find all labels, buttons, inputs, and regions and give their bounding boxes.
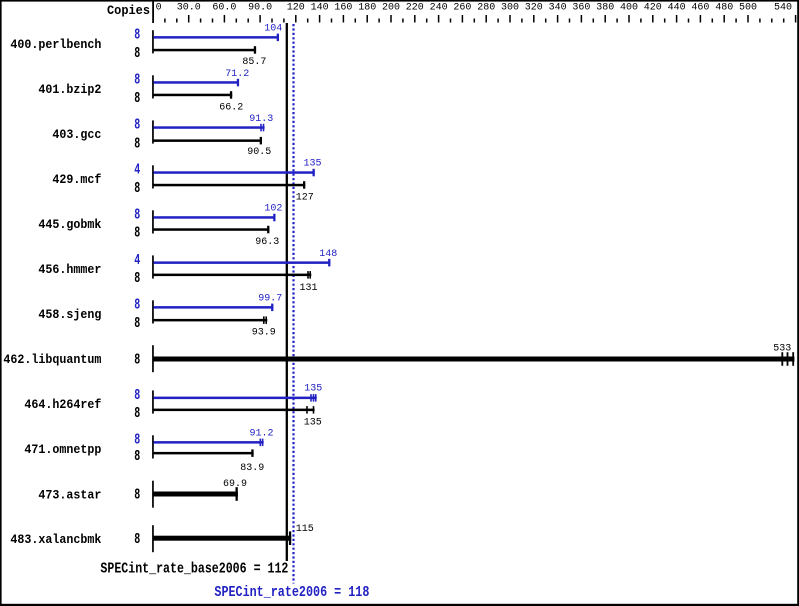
benchmark group 403.gcc (52, 114, 273, 158)
svg-text:483.xalancbmk: 483.xalancbmk (10, 532, 101, 547)
svg-text:160: 160 (334, 3, 352, 14)
svg-text:240: 240 (430, 3, 448, 14)
svg-text:30.0: 30.0 (177, 3, 201, 14)
svg-text:400: 400 (620, 3, 638, 14)
benchmark group 429.mcf (52, 159, 321, 204)
svg-text:458.sjeng: 458.sjeng (38, 307, 101, 322)
svg-text:360: 360 (572, 3, 590, 14)
svg-text:140: 140 (311, 3, 329, 14)
svg-text:91.3: 91.3 (249, 114, 273, 125)
benchmark group 445.gobmk (38, 203, 282, 248)
svg-text:SPECint_rate_base2006 = 112: SPECint_rate_base2006 = 112 (100, 561, 288, 578)
svg-text:8: 8 (134, 117, 140, 134)
svg-text:8: 8 (134, 72, 140, 89)
svg-text:460: 460 (691, 3, 709, 14)
svg-text:93.9: 93.9 (252, 327, 276, 338)
svg-text:260: 260 (453, 3, 471, 14)
svg-text:SPECint_rate2006 = 118: SPECint_rate2006 = 118 (214, 584, 369, 601)
svg-text:8: 8 (134, 315, 140, 332)
svg-text:429.mcf: 429.mcf (52, 172, 101, 187)
benchmark group 471.omnetpp (24, 429, 273, 474)
svg-text:90.5: 90.5 (247, 147, 271, 158)
svg-text:445.gobmk: 445.gobmk (38, 217, 101, 232)
svg-text:420: 420 (644, 3, 662, 14)
svg-text:91.2: 91.2 (249, 429, 273, 440)
svg-text:83.9: 83.9 (240, 463, 264, 474)
svg-text:464.h264ref: 464.h264ref (24, 397, 101, 412)
svg-text:8: 8 (134, 297, 140, 314)
svg-text:60.0: 60.0 (212, 3, 236, 14)
svg-text:85.7: 85.7 (242, 57, 266, 68)
svg-text:8: 8 (134, 387, 140, 404)
peak reference line 118 (dotted) (292, 24, 294, 584)
svg-text:540: 540 (774, 3, 792, 14)
svg-text:462.libquantum: 462.libquantum (3, 352, 101, 367)
svg-text:127: 127 (296, 192, 314, 203)
benchmark group 458.sjeng (38, 294, 282, 339)
svg-text:99.7: 99.7 (258, 294, 282, 305)
svg-text:131: 131 (299, 283, 317, 294)
svg-text:135: 135 (303, 159, 321, 170)
svg-text:120: 120 (287, 3, 305, 14)
benchmark group 464.h264ref (24, 384, 322, 429)
benchmark group 401.bzip2 (38, 69, 249, 114)
svg-text:320: 320 (525, 3, 543, 14)
svg-text:71.2: 71.2 (225, 69, 249, 80)
svg-text:280: 280 (477, 3, 495, 14)
svg-text:8: 8 (134, 448, 140, 465)
svg-text:500: 500 (739, 3, 757, 14)
svg-text:148: 148 (319, 249, 337, 260)
svg-text:533: 533 (773, 344, 791, 355)
svg-text:8: 8 (134, 531, 140, 548)
svg-text:8: 8 (134, 432, 140, 449)
border frame (0, 0, 799, 2)
svg-text:8: 8 (134, 90, 140, 107)
svg-text:102: 102 (264, 203, 282, 214)
svg-text:471.omnetpp: 471.omnetpp (24, 442, 101, 457)
svg-text:480: 480 (715, 3, 733, 14)
svg-text:90.0: 90.0 (248, 3, 272, 14)
svg-text:8: 8 (134, 225, 140, 242)
svg-text:200: 200 (382, 3, 400, 14)
svg-text:8: 8 (134, 27, 140, 44)
benchmark group 483.xalancbmk (10, 524, 313, 552)
benchmark group 462.libquantum (3, 344, 794, 373)
axis line (152, 1, 154, 23)
svg-text:340: 340 (549, 3, 567, 14)
benchmark group 400.perlbench (10, 24, 282, 68)
axis ticks (165, 15, 796, 23)
benchmark group 456.hmmer (38, 249, 337, 294)
svg-text:104: 104 (264, 24, 282, 35)
svg-text:300: 300 (501, 3, 519, 14)
svg-text:66.2: 66.2 (219, 103, 243, 114)
svg-text:180: 180 (358, 3, 376, 14)
svg-text:4: 4 (134, 252, 140, 269)
svg-text:456.hmmer: 456.hmmer (38, 262, 101, 277)
svg-text:4: 4 (134, 162, 140, 179)
benchmark group 473.astar (38, 479, 247, 508)
svg-text:8: 8 (134, 45, 140, 62)
svg-text:8: 8 (134, 270, 140, 287)
svg-text:440: 440 (668, 3, 686, 14)
svg-text:8: 8 (134, 405, 140, 422)
svg-text:400.perlbench: 400.perlbench (10, 37, 101, 52)
svg-text:8: 8 (134, 487, 140, 504)
svg-text:380: 380 (596, 3, 614, 14)
svg-text:135: 135 (304, 384, 322, 395)
svg-text:403.gcc: 403.gcc (52, 127, 101, 142)
svg-text:115: 115 (296, 524, 314, 535)
svg-text:8: 8 (134, 352, 140, 369)
svg-text:8: 8 (134, 180, 140, 197)
svg-text:8: 8 (134, 207, 140, 224)
svg-text:96.3: 96.3 (255, 237, 279, 248)
svg-text:8: 8 (134, 136, 140, 153)
base reference line 112 (286, 23, 288, 561)
svg-text:473.astar: 473.astar (38, 488, 101, 503)
svg-text:0: 0 (156, 3, 162, 14)
svg-text:220: 220 (406, 3, 424, 14)
svg-text:Copies: Copies (107, 3, 150, 18)
svg-text:401.bzip2: 401.bzip2 (38, 82, 101, 97)
svg-text:135: 135 (304, 418, 322, 429)
svg-text:69.9: 69.9 (223, 479, 247, 490)
axis labels (156, 3, 792, 14)
